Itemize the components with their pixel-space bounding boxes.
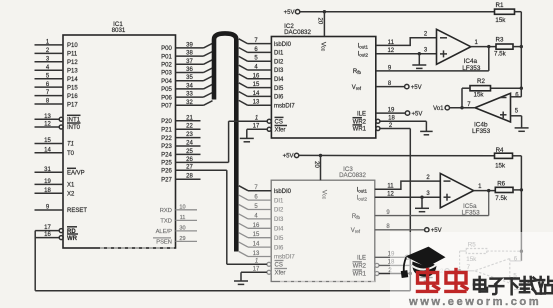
svg-text:30: 30 bbox=[179, 225, 185, 231]
wire right rail lower bbox=[520, 156, 522, 261]
svg-text:PSEN: PSEN bbox=[156, 240, 172, 246]
svg-text:35: 35 bbox=[186, 75, 193, 81]
pin 6 P15 bbox=[35, 86, 64, 88]
pin 17 RD bbox=[35, 230, 59, 232]
svg-text:DAC0832: DAC0832 bbox=[339, 172, 366, 179]
svg-text:Iout1: Iout1 bbox=[358, 44, 369, 50]
pin 15 T1 bbox=[35, 143, 64, 145]
op-amp IC5a LF353 bbox=[440, 173, 473, 207]
svg-text:R2: R2 bbox=[477, 78, 485, 85]
svg-text:P04: P04 bbox=[161, 79, 172, 85]
watermark graduation cap bbox=[401, 247, 446, 278]
pin 1 CS IC2 bbox=[267, 119, 271, 123]
svg-text:Vref: Vref bbox=[351, 228, 361, 234]
op-amp IC4a LF353 bbox=[437, 29, 471, 64]
svg-text:P24: P24 bbox=[161, 153, 172, 159]
dac IC2 DAC0832 bbox=[271, 37, 375, 139]
svg-text:INT0: INT0 bbox=[67, 125, 81, 131]
svg-text:DI3: DI3 bbox=[274, 217, 284, 223]
svg-text:P25: P25 bbox=[161, 161, 172, 167]
resistor R1 15k bbox=[495, 9, 515, 14]
svg-text:12: 12 bbox=[387, 192, 394, 198]
svg-text:P21: P21 bbox=[161, 127, 172, 133]
ground Xfer IC2 bbox=[246, 129, 248, 138]
svg-text:WR1: WR1 bbox=[353, 272, 367, 278]
svg-text:LF353: LF353 bbox=[462, 210, 481, 217]
svg-text:10: 10 bbox=[179, 204, 185, 210]
svg-text:DI4: DI4 bbox=[274, 227, 284, 233]
pin 20 Vcc IC3 bbox=[320, 156, 322, 181]
svg-text:7.5k: 7.5k bbox=[494, 50, 507, 57]
dac IC3 DAC0832 bbox=[271, 180, 375, 281]
wire IC4b output Vo1 bbox=[450, 107, 476, 109]
terminal +5V Vref IC3 bbox=[425, 228, 429, 232]
svg-text:R3: R3 bbox=[496, 36, 504, 43]
svg-text:P06: P06 bbox=[161, 95, 172, 101]
svg-text:38: 38 bbox=[186, 51, 193, 57]
svg-text:21: 21 bbox=[186, 115, 193, 121]
svg-text:DI2: DI2 bbox=[274, 208, 284, 214]
svg-text:DAC0832: DAC0832 bbox=[284, 29, 311, 36]
svg-text:P13: P13 bbox=[67, 68, 78, 74]
op-amp IC4b LF353 bbox=[475, 93, 511, 122]
svg-text:14: 14 bbox=[253, 242, 260, 248]
svg-text:15: 15 bbox=[44, 138, 51, 144]
svg-text:22: 22 bbox=[186, 124, 193, 130]
pin 17 Xfer IC2 bbox=[267, 127, 271, 131]
svg-text:19: 19 bbox=[388, 108, 395, 114]
svg-text:18: 18 bbox=[44, 188, 51, 194]
svg-text:15k: 15k bbox=[495, 162, 506, 169]
wire IC5b output Vo2 bbox=[449, 270, 474, 272]
svg-text:P07: P07 bbox=[161, 104, 172, 110]
svg-text:RESET: RESET bbox=[67, 208, 87, 214]
svg-text:Rfb: Rfb bbox=[352, 214, 361, 220]
node Rfb output junction bbox=[487, 45, 490, 48]
svg-text:CS: CS bbox=[275, 263, 283, 269]
svg-text:LF353: LF353 bbox=[472, 128, 491, 135]
svg-text:37: 37 bbox=[186, 59, 193, 65]
svg-text:Iout2: Iout2 bbox=[358, 52, 369, 58]
node WR1 IC3 junction bbox=[409, 272, 412, 275]
svg-text:R4: R4 bbox=[496, 147, 504, 154]
ground Xfer IC3 bbox=[240, 272, 242, 281]
svg-text:27: 27 bbox=[186, 165, 193, 171]
svg-text:lsbDI0: lsbDI0 bbox=[274, 189, 292, 195]
svg-text:DI6: DI6 bbox=[274, 245, 284, 251]
svg-text:15k: 15k bbox=[495, 17, 506, 24]
svg-text:DI3: DI3 bbox=[274, 68, 284, 74]
mcu IC1 8031 bbox=[63, 35, 176, 248]
svg-text:CS: CS bbox=[275, 119, 283, 125]
svg-text:TXD: TXD bbox=[160, 219, 172, 225]
node Iout2 IC3 ground tap bbox=[420, 196, 423, 199]
svg-text:23: 23 bbox=[186, 132, 193, 138]
svg-text:P02: P02 bbox=[161, 63, 172, 69]
svg-text:lsbDI0: lsbDI0 bbox=[274, 42, 292, 48]
svg-text:P16: P16 bbox=[67, 94, 78, 100]
svg-text:msbDI7: msbDI7 bbox=[274, 103, 295, 109]
pin 16 WR bbox=[35, 237, 59, 239]
svg-text:R1: R1 bbox=[496, 2, 504, 9]
svg-text:Vo1: Vo1 bbox=[433, 106, 444, 112]
watermark text dianzi xiazaizhan bbox=[474, 277, 487, 292]
svg-text:7.5k: 7.5k bbox=[495, 195, 508, 202]
svg-text:Iout2: Iout2 bbox=[357, 195, 368, 201]
svg-text:13: 13 bbox=[253, 251, 260, 257]
svg-text:P14: P14 bbox=[67, 77, 78, 83]
node R2 rail bbox=[520, 87, 523, 90]
watermark text 虫虫 red bbox=[416, 268, 440, 292]
op-amp IC5b LF353 bbox=[475, 259, 510, 284]
svg-text:28: 28 bbox=[186, 174, 193, 180]
svg-text:+5V: +5V bbox=[411, 85, 422, 91]
svg-text:20: 20 bbox=[313, 161, 319, 168]
svg-text:P17: P17 bbox=[67, 102, 78, 108]
wire IC4a output bbox=[471, 46, 496, 48]
pin 1 CS IC3 bbox=[267, 262, 271, 266]
pin 17 Xfer IC3 bbox=[267, 270, 271, 274]
ground op-amp IC5a noninverting bbox=[421, 197, 423, 208]
svg-text:+5V: +5V bbox=[284, 10, 295, 16]
node Vcc junction IC3 bbox=[319, 154, 322, 157]
svg-text:R6: R6 bbox=[497, 180, 505, 187]
svg-text:P10: P10 bbox=[67, 43, 78, 49]
terminal +5V ILE IC2 bbox=[405, 111, 409, 115]
svg-text:DI1: DI1 bbox=[274, 198, 284, 204]
svg-text:RXD: RXD bbox=[160, 208, 172, 214]
svg-text:8031: 8031 bbox=[112, 27, 126, 34]
pin 19 X1 bbox=[35, 183, 64, 185]
svg-text:13: 13 bbox=[44, 114, 51, 120]
svg-text:11: 11 bbox=[387, 184, 394, 190]
node R5 output junction bbox=[458, 269, 461, 272]
svg-text:19: 19 bbox=[44, 179, 51, 185]
terminal Vo1 bbox=[445, 106, 449, 110]
pin 9 RESET bbox=[35, 209, 64, 211]
svg-text:P03: P03 bbox=[161, 71, 172, 77]
svg-text:29: 29 bbox=[179, 236, 185, 242]
pin 6 IC4b bbox=[520, 88, 522, 97]
pin 1 P10 bbox=[35, 44, 64, 46]
svg-text:Xfer: Xfer bbox=[275, 271, 286, 277]
node R2 output junction bbox=[460, 106, 463, 109]
svg-text:DI4: DI4 bbox=[274, 77, 284, 83]
svg-text:Vref: Vref bbox=[352, 85, 362, 91]
resistor R2 15k bbox=[470, 86, 491, 91]
svg-text:DI5: DI5 bbox=[274, 236, 284, 242]
svg-text:15: 15 bbox=[253, 232, 260, 238]
svg-text:20: 20 bbox=[317, 18, 323, 25]
svg-text:P05: P05 bbox=[161, 87, 172, 93]
svg-text:ALE/P: ALE/P bbox=[156, 229, 173, 235]
svg-text:14: 14 bbox=[44, 147, 51, 153]
wire WR to bottom rail bbox=[34, 231, 36, 291]
svg-text:32: 32 bbox=[186, 100, 193, 106]
node R6 rail bbox=[520, 188, 523, 191]
terminal +5V ILE IC3 bbox=[405, 255, 409, 259]
svg-text:T1: T1 bbox=[67, 142, 74, 148]
svg-text:18: 18 bbox=[388, 116, 395, 122]
svg-text:P22: P22 bbox=[161, 136, 172, 142]
wire IC5a output bbox=[474, 190, 496, 192]
wire CS IC2 to P25 bbox=[228, 121, 230, 162]
svg-text:WR2: WR2 bbox=[353, 264, 367, 270]
node R5 rail bbox=[520, 250, 523, 253]
svg-text:P23: P23 bbox=[161, 144, 172, 150]
svg-text:14: 14 bbox=[253, 91, 260, 97]
svg-text:Xfer: Xfer bbox=[275, 128, 286, 134]
terminal Vo2 bbox=[445, 269, 449, 273]
ground IC4b pin5 bbox=[521, 116, 523, 128]
svg-text:DI1: DI1 bbox=[274, 51, 284, 57]
svg-text:39: 39 bbox=[186, 42, 193, 48]
wire CS IC3 to P26 bbox=[226, 170, 228, 264]
svg-text:Rfb: Rfb bbox=[353, 69, 362, 75]
svg-text:Vcc: Vcc bbox=[320, 190, 327, 200]
node R3 rail bbox=[520, 45, 523, 48]
svg-text:P15: P15 bbox=[67, 85, 78, 91]
svg-text:DI2: DI2 bbox=[274, 59, 284, 65]
pin 31 EA/VP bbox=[35, 171, 64, 173]
pin 12 INT0 bbox=[35, 126, 60, 128]
ground WR2 IC3 bbox=[425, 265, 427, 277]
pin 7 P16 bbox=[35, 95, 64, 97]
svg-text:P26: P26 bbox=[161, 168, 172, 174]
pin 8 P17 bbox=[35, 103, 64, 105]
svg-text:EA/VP: EA/VP bbox=[67, 171, 85, 177]
svg-text:+5V: +5V bbox=[412, 112, 423, 118]
box bottom fade overlays bbox=[100, 247, 176, 249]
pin 5 IC4b bbox=[511, 115, 522, 117]
pin 4 P13 bbox=[35, 69, 64, 71]
pin 20 Vcc IC2 bbox=[323, 12, 325, 37]
node Vcc junction IC2 bbox=[323, 10, 326, 13]
svg-text:16: 16 bbox=[253, 73, 260, 79]
ground IC5b pin5 bbox=[520, 280, 522, 290]
svg-text:msbDI7: msbDI7 bbox=[274, 255, 295, 261]
resistor R5 15k bbox=[466, 249, 487, 254]
svg-text:25: 25 bbox=[186, 149, 193, 155]
svg-text:P00: P00 bbox=[161, 46, 172, 52]
node Rfb IC3 output junction bbox=[487, 189, 490, 192]
svg-text:11: 11 bbox=[388, 40, 395, 46]
pin 6 IC5b bbox=[510, 260, 522, 262]
svg-text:31: 31 bbox=[44, 167, 51, 173]
svg-text:P20: P20 bbox=[161, 119, 172, 125]
svg-text:34: 34 bbox=[186, 83, 193, 89]
svg-text:Iout1: Iout1 bbox=[357, 188, 368, 194]
wire right rail upper bbox=[520, 12, 522, 89]
svg-text:P01: P01 bbox=[161, 54, 172, 60]
ground WR2 IC2 bbox=[425, 121, 427, 131]
svg-text:WR: WR bbox=[67, 236, 78, 242]
svg-text:DI6: DI6 bbox=[274, 95, 284, 101]
svg-text:+5V: +5V bbox=[283, 154, 294, 160]
svg-text:P12: P12 bbox=[67, 60, 78, 66]
svg-text:15: 15 bbox=[253, 82, 260, 88]
svg-text:11: 11 bbox=[180, 215, 186, 221]
terminal +5V Vref IC2 bbox=[405, 84, 409, 88]
svg-text:P11: P11 bbox=[67, 52, 78, 58]
pin 3 P12 bbox=[35, 61, 64, 63]
pin 13 INT1 bbox=[35, 118, 60, 120]
svg-text:26: 26 bbox=[186, 157, 193, 163]
svg-text:12: 12 bbox=[387, 48, 394, 54]
svg-text:16: 16 bbox=[44, 232, 51, 238]
pin 2 P11 bbox=[35, 52, 64, 54]
svg-text:12: 12 bbox=[44, 122, 51, 128]
svg-text:36: 36 bbox=[186, 67, 193, 73]
pin 18 X2 bbox=[35, 192, 64, 194]
svg-text:P27: P27 bbox=[161, 177, 172, 183]
svg-text:WR1: WR1 bbox=[353, 127, 367, 133]
svg-text:13: 13 bbox=[253, 100, 260, 106]
svg-text:33: 33 bbox=[186, 92, 193, 98]
svg-text:ILE: ILE bbox=[357, 256, 366, 262]
svg-text:ILE: ILE bbox=[357, 111, 366, 117]
svg-text:LF353: LF353 bbox=[462, 65, 481, 72]
wire WR1 vertical bbox=[409, 129, 411, 291]
svg-text:Vcc: Vcc bbox=[320, 42, 327, 52]
resistor R3 7.5k bbox=[496, 44, 513, 49]
pin 5 IC5b bbox=[510, 279, 521, 281]
svg-text:24: 24 bbox=[186, 141, 193, 147]
resistor R4 15k bbox=[495, 153, 513, 158]
svg-text:X2: X2 bbox=[67, 191, 75, 197]
svg-text:16: 16 bbox=[253, 223, 260, 229]
pin 5 P14 bbox=[35, 78, 64, 80]
svg-text:17: 17 bbox=[44, 225, 51, 231]
resistor R6 7.5k bbox=[495, 187, 513, 192]
ground op-amp IC4a noninverting bbox=[418, 54, 420, 65]
svg-text:www.eeworm.com: www.eeworm.com bbox=[408, 296, 541, 308]
pin 14 T0 bbox=[35, 152, 64, 154]
data bus bbox=[214, 33, 236, 251]
svg-text:X1: X1 bbox=[67, 183, 75, 189]
svg-text:T0: T0 bbox=[67, 151, 75, 157]
svg-text:15k: 15k bbox=[474, 91, 485, 98]
svg-text:DI5: DI5 bbox=[274, 86, 284, 92]
node Iout2 ground tap bbox=[418, 52, 421, 55]
